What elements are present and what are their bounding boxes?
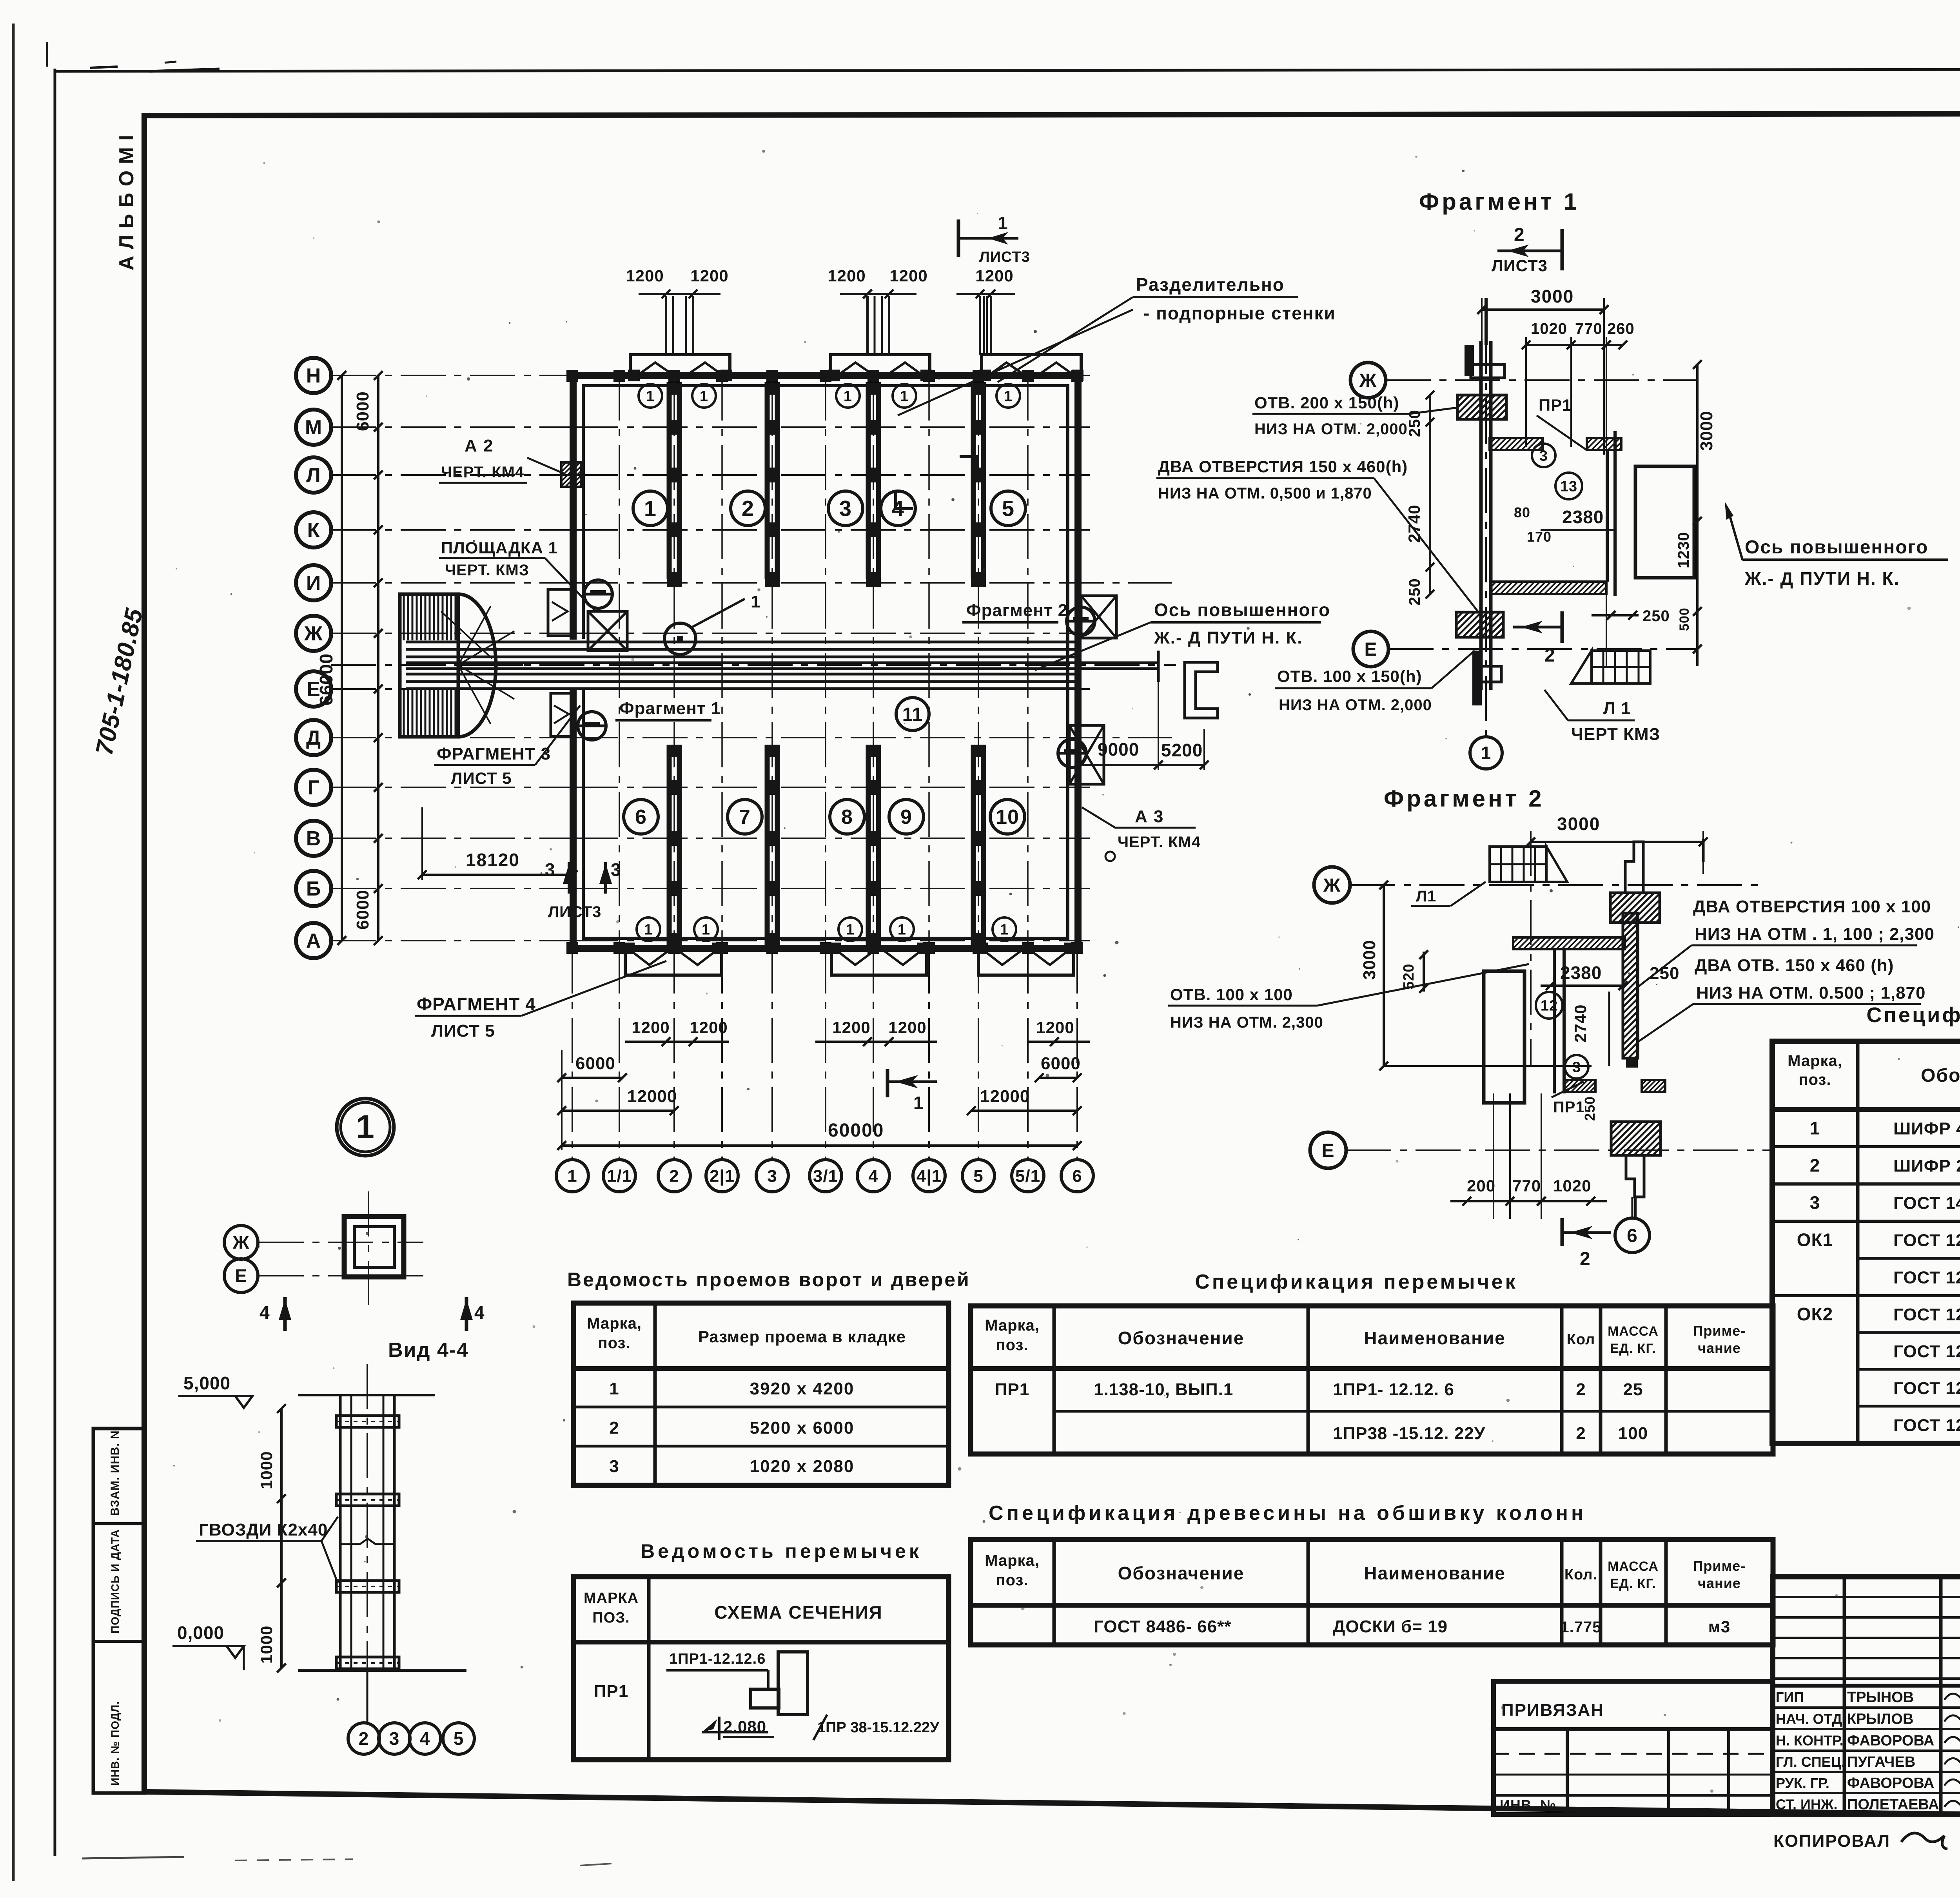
svg-text:12000: 12000 xyxy=(980,1087,1030,1106)
column elevation xyxy=(298,1394,435,1396)
svg-text:1: 1 xyxy=(646,388,655,404)
svg-text:3: 3 xyxy=(1539,448,1548,464)
svg-text:Д: Д xyxy=(306,727,321,749)
section circle xyxy=(578,712,606,740)
svg-text:ГИП: ГИП xyxy=(1776,1689,1804,1705)
svg-text:ЕД. КГ.: ЕД. КГ. xyxy=(1610,1576,1656,1591)
svg-text:Спецификация древесины на обши: Спецификация древесины на обшивку колонн xyxy=(989,1502,1586,1525)
svg-text:1: 1 xyxy=(900,388,909,404)
svg-text:80: 80 xyxy=(1514,504,1530,520)
svg-text:- подпорные стенки: - подпорные стенки xyxy=(1143,303,1336,323)
outer thin frame xyxy=(54,69,56,1856)
svg-text:ИНВ. №: ИНВ. № xyxy=(1500,1797,1556,1813)
svg-text:1: 1 xyxy=(609,1379,619,1398)
axis circle Г xyxy=(296,770,331,805)
axis circle И xyxy=(296,565,331,600)
I-beam end symbol xyxy=(1185,662,1218,718)
svg-text:1: 1 xyxy=(644,496,657,521)
svg-text:1ПР38 -15.12. 22У: 1ПР38 -15.12. 22У xyxy=(1333,1424,1485,1443)
svg-text:0,000: 0,000 xyxy=(177,1623,224,1643)
svg-text:1200: 1200 xyxy=(888,1018,926,1037)
dim 9000 5200 xyxy=(1079,764,1204,766)
axis circle В xyxy=(296,821,331,856)
svg-text:поз.: поз. xyxy=(1798,1071,1831,1088)
svg-text:А Л Ь Б О М I: А Л Ь Б О М I xyxy=(115,134,138,270)
axis circle Л xyxy=(296,457,331,493)
svg-text:ФАВОРОВА: ФАВОРОВА xyxy=(1847,1775,1934,1791)
svg-text:9000: 9000 xyxy=(1098,739,1139,760)
svg-text:3: 3 xyxy=(389,1728,400,1749)
corridor gap in left wall xyxy=(569,640,586,688)
svg-text:Л: Л xyxy=(306,464,321,487)
axis circle 5/1 xyxy=(1012,1160,1044,1192)
svg-text:Л1: Л1 xyxy=(1416,888,1436,905)
svg-text:ОК2: ОК2 xyxy=(1797,1304,1833,1324)
svg-text:1: 1 xyxy=(751,592,760,611)
svg-text:Н: Н xyxy=(306,364,321,387)
column marks on outer walls xyxy=(566,370,578,382)
svg-text:НИЗ НА ОТМ. 0.500 ; 1,870: НИЗ НА ОТМ. 0.500 ; 1,870 xyxy=(1696,983,1926,1003)
svg-text:9: 9 xyxy=(900,806,912,829)
column section square xyxy=(344,1217,404,1277)
svg-text:К: К xyxy=(307,519,320,542)
top right wall piece xyxy=(1581,893,1686,923)
axis circle Б xyxy=(296,871,331,906)
svg-text:ФРАГМЕНТ 3: ФРАГМЕНТ 3 xyxy=(437,744,551,763)
pier blobs at door bay edges xyxy=(628,370,640,381)
svg-text:ЛИСТ 5: ЛИСТ 5 xyxy=(431,1021,495,1041)
svg-text:Кол.: Кол. xyxy=(1564,1566,1597,1583)
svg-text:60000: 60000 xyxy=(828,1120,884,1141)
dim 3000 top xyxy=(1482,308,1604,311)
1200 pairs bottom xyxy=(625,1041,729,1043)
svg-text:ОТВ. 200 х 150(h): ОТВ. 200 х 150(h) xyxy=(1254,393,1399,412)
top door bays xyxy=(630,355,730,375)
svg-text:МАССА: МАССА xyxy=(1608,1559,1659,1574)
svg-text:Фрагмент 2: Фрагмент 2 xyxy=(966,601,1068,620)
svg-text:НАЧ. ОТД.: НАЧ. ОТД. xyxy=(1776,1711,1846,1727)
svg-text:ГОСТ 8486- 66**: ГОСТ 8486- 66** xyxy=(1094,1617,1231,1636)
svg-text:4|1: 4|1 xyxy=(916,1166,942,1186)
svg-text:ФРАГМЕНТ 4: ФРАГМЕНТ 4 xyxy=(417,994,536,1014)
axis circle 2|1 xyxy=(706,1160,738,1192)
svg-text:1ПР 38-15.12.22У: 1ПР 38-15.12.22У xyxy=(817,1719,939,1736)
svg-text:1: 1 xyxy=(702,921,710,938)
svg-text:ЧЕРТ КМЗ: ЧЕРТ КМЗ xyxy=(1571,725,1660,744)
svg-text:МАССА: МАССА xyxy=(1608,1324,1659,1339)
axis Ж circle xyxy=(1314,867,1350,903)
svg-text:ГОСТ 12506-81: ГОСТ 12506-81 xyxy=(1893,1231,1960,1250)
svg-text:МАРКА: МАРКА xyxy=(584,1590,639,1606)
break squiggle xyxy=(340,1539,394,1544)
svg-text:7: 7 xyxy=(739,806,751,829)
svg-text:Кол: Кол xyxy=(1567,1331,1595,1348)
svg-text:1: 1 xyxy=(844,388,852,404)
svg-text:ГОСТ 14624-69: ГОСТ 14624-69 xyxy=(1893,1194,1960,1213)
table ведомость перемычек xyxy=(573,1577,949,1760)
axis circle Е xyxy=(224,1259,258,1293)
section mark 2 ЛИСТ3 xyxy=(1561,229,1564,270)
svg-text:200: 200 xyxy=(1467,1177,1495,1195)
axis circle Н xyxy=(296,358,331,393)
axis circle Е xyxy=(296,671,331,707)
interior partition walls top half xyxy=(667,382,672,579)
svg-text:ФАВОРОВА: ФАВОРОВА xyxy=(1847,1733,1934,1749)
svg-text:5: 5 xyxy=(973,1166,983,1186)
section circle xyxy=(584,580,612,608)
svg-text:2|1: 2|1 xyxy=(710,1166,735,1186)
axis circle М xyxy=(296,410,331,445)
svg-text:2: 2 xyxy=(1576,1380,1586,1399)
svg-text:4: 4 xyxy=(868,1166,878,1186)
svg-text:ВЗАМ. ИНВ. №: ВЗАМ. ИНВ. № xyxy=(109,1426,122,1516)
svg-text:1200: 1200 xyxy=(690,267,728,285)
svg-text:250: 250 xyxy=(1406,578,1423,606)
svg-text:Ж: Ж xyxy=(1323,875,1341,896)
collars xyxy=(336,1416,399,1427)
axis circle К xyxy=(296,512,331,548)
compartment circle 11 xyxy=(896,698,929,731)
svg-text:6: 6 xyxy=(1072,1166,1082,1186)
svg-text:ОК1: ОК1 xyxy=(1797,1230,1833,1250)
dock radial lines xyxy=(458,606,491,665)
svg-text:Обозначение: Обозначение xyxy=(1921,1065,1960,1086)
X-box left inside plan xyxy=(588,611,627,651)
table ведомость проемов xyxy=(573,1303,949,1485)
axis circle 4 xyxy=(857,1160,889,1192)
circled 13 xyxy=(1555,473,1582,499)
svg-text:500: 500 xyxy=(1677,607,1692,631)
svg-text:4: 4 xyxy=(260,1302,270,1323)
axis circle 6 xyxy=(1061,1160,1093,1192)
top dim 1200 pairs xyxy=(639,293,720,295)
svg-text:НИЗ НА ОТМ. 2,000: НИЗ НА ОТМ. 2,000 xyxy=(1279,696,1432,714)
svg-text:Марка,: Марка, xyxy=(985,1317,1040,1334)
bottom door bays xyxy=(625,948,722,975)
svg-text:Е: Е xyxy=(1364,639,1377,660)
svg-text:2: 2 xyxy=(1810,1155,1820,1176)
svg-text:поз.: поз. xyxy=(996,1336,1028,1354)
svg-text:Марка,: Марка, xyxy=(985,1552,1040,1569)
svg-text:2: 2 xyxy=(1514,225,1525,245)
bottom wall xyxy=(1478,582,1617,594)
svg-text:СХЕМА СЕЧЕНИЯ: СХЕМА СЕЧЕНИЯ xyxy=(714,1602,882,1623)
top-left corner dashes xyxy=(90,67,118,68)
svg-text:Ж: Ж xyxy=(232,1232,250,1253)
node circle with leader 1 xyxy=(664,623,696,654)
svg-text:770: 770 xyxy=(1512,1177,1541,1195)
svg-text:А 3: А 3 xyxy=(1135,807,1164,826)
svg-text:13: 13 xyxy=(1560,478,1577,495)
svg-text:1020 х 2080: 1020 х 2080 xyxy=(750,1457,855,1476)
svg-text:2: 2 xyxy=(1580,1249,1591,1269)
svg-text:ТРЫНОВ: ТРЫНОВ xyxy=(1847,1689,1914,1706)
svg-text:6: 6 xyxy=(1627,1226,1638,1246)
dims 3000 520 vertical xyxy=(1383,885,1385,1066)
svg-text:Ведомость перемычек: Ведомость перемычек xyxy=(641,1540,922,1562)
svg-text:РУК. ГР.: РУК. ГР. xyxy=(1776,1775,1829,1791)
door bay riser lines above (1200 columns) xyxy=(665,296,667,355)
svg-text:1.138-10, ВЫП.1: 1.138-10, ВЫП.1 xyxy=(1094,1380,1233,1399)
horizontal axis dash-dot lines across building xyxy=(573,375,1090,376)
svg-text:ОТВ. 100 х 150(h): ОТВ. 100 х 150(h) xyxy=(1277,667,1422,685)
svg-text:2.080: 2.080 xyxy=(723,1717,766,1736)
svg-text:Ж: Ж xyxy=(304,622,323,645)
vertical axis lines through building xyxy=(572,375,573,948)
axis circle Ж xyxy=(224,1226,258,1259)
section circle xyxy=(1067,607,1095,635)
svg-text:1ПР1- 12.12. 6: 1ПР1- 12.12. 6 xyxy=(1333,1380,1454,1399)
vertical dim 1000s xyxy=(280,1409,283,1668)
interior partition walls bottom half xyxy=(667,745,672,945)
svg-text:НИЗ НА ОТМ. 2,300: НИЗ НА ОТМ. 2,300 xyxy=(1170,1014,1323,1031)
svg-text:ЛИСТ3: ЛИСТ3 xyxy=(979,249,1030,265)
svg-text:1: 1 xyxy=(1000,921,1009,938)
bottom circles 2 3 4 5 xyxy=(348,1723,379,1754)
svg-text:И: И xyxy=(306,572,321,595)
circled 3 xyxy=(1532,444,1555,467)
svg-text:ГОСТ 12506-81: ГОСТ 12506-81 xyxy=(1893,1305,1960,1324)
axis circle А xyxy=(296,923,331,958)
axis circle 1/1 xyxy=(603,1160,635,1192)
svg-text:5: 5 xyxy=(454,1728,464,1749)
svg-text:3920 х 4200: 3920 х 4200 xyxy=(750,1379,855,1398)
svg-text:1200: 1200 xyxy=(975,267,1013,285)
ground line xyxy=(298,1669,466,1672)
svg-text:8: 8 xyxy=(841,806,853,829)
axis circle 2 xyxy=(658,1160,690,1192)
svg-text:3: 3 xyxy=(839,496,852,521)
scan speckles xyxy=(173,150,1960,1793)
svg-text:ДВА ОТВЕРСТИЯ 100 х 100: ДВА ОТВЕРСТИЯ 100 х 100 xyxy=(1693,897,1931,916)
svg-text:4: 4 xyxy=(420,1728,430,1749)
svg-text:2: 2 xyxy=(609,1418,619,1438)
stair symbol xyxy=(1490,847,1567,882)
svg-text:Ось повышенного: Ось повышенного xyxy=(1154,600,1330,620)
svg-text:ГОСТ 12506-81: ГОСТ 12506-81 xyxy=(1893,1268,1960,1287)
svg-text:1200: 1200 xyxy=(828,267,866,285)
svg-text:ЛИСТ3: ЛИСТ3 xyxy=(548,903,601,921)
axis Е circle xyxy=(1353,631,1388,667)
svg-text:1230: 1230 xyxy=(1675,532,1692,568)
section marks 3 xyxy=(568,862,571,894)
title block main xyxy=(1773,1577,1960,1815)
axis circle 5 xyxy=(962,1160,995,1192)
section mark 2 bottom xyxy=(1561,1218,1564,1246)
svg-text:12000: 12000 xyxy=(627,1087,677,1106)
svg-text:3: 3 xyxy=(545,859,555,880)
svg-text:5: 5 xyxy=(1002,496,1014,521)
svg-text:СТ. ИНЖ.: СТ. ИНЖ. xyxy=(1776,1797,1837,1813)
svg-text:Г: Г xyxy=(308,776,319,799)
svg-text:ДОСКИ б= 19: ДОСКИ б= 19 xyxy=(1333,1617,1448,1636)
svg-text:1ПР1-12.12.6: 1ПР1-12.12.6 xyxy=(669,1651,766,1667)
top opening wall xyxy=(1478,438,1550,450)
svg-text:1: 1 xyxy=(846,921,855,938)
svg-text:Л 1: Л 1 xyxy=(1603,699,1631,718)
svg-text:3: 3 xyxy=(609,1457,619,1476)
svg-text:Наименование: Наименование xyxy=(1364,1563,1505,1583)
fragment 1 walls xyxy=(1479,341,1483,690)
X-box right of corridor xyxy=(1081,596,1116,638)
svg-text:1: 1 xyxy=(898,921,906,938)
table grid xyxy=(1772,1041,1960,1443)
svg-text:А: А xyxy=(306,930,321,952)
axis circle 1 xyxy=(556,1160,588,1192)
svg-text:2: 2 xyxy=(1544,645,1555,666)
svg-text:Ведомость проемов ворот и двер: Ведомость проемов ворот и дверей xyxy=(567,1269,971,1291)
fragment 1 small walls above xyxy=(1465,345,1474,376)
svg-text:1200: 1200 xyxy=(889,267,927,285)
svg-text:ГВОЗДИ К2х40: ГВОЗДИ К2х40 xyxy=(199,1520,328,1539)
left vertical dims xyxy=(377,375,379,941)
svg-text:3000: 3000 xyxy=(1557,814,1600,834)
unloading dock rectangle with hatch xyxy=(400,594,458,737)
stair symbol Л1 xyxy=(1571,651,1650,683)
svg-text:5200: 5200 xyxy=(1161,740,1203,760)
svg-text:6000: 6000 xyxy=(353,890,372,930)
svg-text:25: 25 xyxy=(1623,1380,1643,1399)
svg-text:М: М xyxy=(305,416,322,439)
привязан block xyxy=(1494,1681,1773,1815)
svg-text:Приме-: Приме- xyxy=(1693,1558,1746,1574)
svg-text:ЛИСТ3: ЛИСТ3 xyxy=(1492,256,1548,275)
svg-text:Обозначение: Обозначение xyxy=(1118,1328,1245,1348)
svg-text:Е: Е xyxy=(1321,1140,1334,1161)
svg-text:5/1: 5/1 xyxy=(1015,1166,1040,1186)
svg-text:чание: чание xyxy=(1698,1575,1741,1591)
dock platform boxes outside left wall xyxy=(548,589,572,636)
svg-text:Спецификация элементов запол: Спецификация элементов заполнения проемо… xyxy=(1866,1003,1960,1027)
svg-text:ШИФР 259-75: ШИФР 259-75 xyxy=(1893,1157,1960,1176)
svg-text:1/1: 1/1 xyxy=(607,1166,632,1186)
axis circle Ж xyxy=(296,616,331,651)
svg-text:Приме-: Приме- xyxy=(1693,1323,1746,1339)
svg-text:ЧЕРТ. КМ4: ЧЕРТ. КМ4 xyxy=(1118,834,1201,851)
svg-text:ЧЕРТ. КМ4: ЧЕРТ. КМ4 xyxy=(441,464,524,481)
svg-text:ДВА ОТВ. 150 х 460 (h): ДВА ОТВ. 150 х 460 (h) xyxy=(1695,956,1894,975)
svg-text:Фрагмент 1: Фрагмент 1 xyxy=(619,699,721,718)
table спецификация древесины xyxy=(971,1539,1773,1645)
svg-text:170: 170 xyxy=(1527,529,1552,545)
svg-text:770: 770 xyxy=(1575,320,1602,337)
axis Е circle xyxy=(1310,1132,1346,1168)
svg-text:ПЛОЩАДКА 1: ПЛОЩАДКА 1 xyxy=(441,538,558,557)
svg-text:11: 11 xyxy=(902,704,923,725)
svg-text:Спецификация перемычек: Спецификация перемычек xyxy=(1195,1271,1517,1293)
svg-text:3: 3 xyxy=(1572,1059,1581,1075)
A2 hatched dock at left wall xyxy=(537,462,604,487)
svg-text:1.775: 1.775 xyxy=(1560,1619,1601,1636)
svg-text:250: 250 xyxy=(1642,607,1670,625)
svg-text:1: 1 xyxy=(913,1093,924,1113)
right door wall xyxy=(1606,450,1609,582)
right wall vertical lines xyxy=(1636,913,1639,1058)
svg-text:3000: 3000 xyxy=(1697,411,1716,451)
svg-text:3000: 3000 xyxy=(1531,286,1574,306)
table спецификация перемычек xyxy=(971,1306,1773,1454)
svg-text:3: 3 xyxy=(767,1166,777,1186)
svg-text:Е: Е xyxy=(235,1265,247,1286)
axis circle Д xyxy=(296,720,331,755)
svg-text:Обозначение: Обозначение xyxy=(1118,1563,1245,1583)
svg-text:Фрагмент 2: Фрагмент 2 xyxy=(1384,785,1544,812)
svg-text:1: 1 xyxy=(700,388,708,404)
svg-text:2: 2 xyxy=(742,496,754,521)
dims 200 770 1020 xyxy=(1450,1200,1607,1202)
svg-text:м3: м3 xyxy=(1708,1617,1730,1636)
section mark 2 bottom xyxy=(1561,611,1564,643)
svg-text:10: 10 xyxy=(996,806,1019,829)
axis 1 vertical + circle xyxy=(1485,329,1487,737)
svg-text:ДВА ОТВЕРСТИЯ 150 х 460(h): ДВА ОТВЕРСТИЯ 150 х 460(h) xyxy=(1158,457,1408,476)
small door circles bottom row xyxy=(637,917,660,941)
svg-text:1: 1 xyxy=(1481,743,1492,763)
svg-text:ГОСТ 12506-81: ГОСТ 12506-81 xyxy=(1893,1342,1960,1361)
svg-text:1000: 1000 xyxy=(257,1451,276,1489)
section mark 1 ЛИСТ3 top xyxy=(957,219,960,257)
svg-text:ПУГАЧЕВ: ПУГАЧЕВ xyxy=(1847,1754,1915,1770)
dim 250 bottom xyxy=(1592,614,1639,616)
right dims 3000 1230 500 xyxy=(1696,364,1699,666)
svg-text:5,000: 5,000 xyxy=(183,1373,230,1393)
svg-text:1200: 1200 xyxy=(832,1018,870,1037)
circled 3 xyxy=(1565,1055,1588,1079)
svg-text:НИЗ НА ОТМ. 0,500 и 1,870: НИЗ НА ОТМ. 0,500 и 1,870 xyxy=(1158,485,1372,502)
bottom scan smudges xyxy=(82,1857,184,1858)
axis Ж circle xyxy=(1350,363,1386,398)
svg-text:1: 1 xyxy=(998,213,1008,233)
svg-text:Ось повышенного: Ось повышенного xyxy=(1745,537,1928,558)
svg-text:ПОЗ.: ПОЗ. xyxy=(592,1610,630,1626)
svg-text:4: 4 xyxy=(474,1302,485,1323)
svg-text:1200: 1200 xyxy=(632,1018,670,1037)
circled 6 xyxy=(1615,1218,1650,1253)
svg-text:2740: 2740 xyxy=(1571,1004,1590,1042)
svg-text:Марка,: Марка, xyxy=(587,1315,642,1332)
svg-text:поз.: поз. xyxy=(598,1334,630,1352)
svg-text:18120: 18120 xyxy=(466,850,520,870)
svg-text:ШИФР 41-74: ШИФР 41-74 xyxy=(1893,1119,1960,1139)
svg-text:ГЛ. СПЕЦ.: ГЛ. СПЕЦ. xyxy=(1776,1754,1845,1770)
svg-text:2380: 2380 xyxy=(1562,507,1604,527)
svg-text:5200 х 6000: 5200 х 6000 xyxy=(750,1418,855,1438)
svg-text:3/1: 3/1 xyxy=(813,1166,838,1186)
svg-text:ПР1: ПР1 xyxy=(594,1682,628,1701)
svg-text:Ж.- Д ПУТИ Н. К.: Ж.- Д ПУТИ Н. К. xyxy=(1744,568,1900,589)
svg-text:1000: 1000 xyxy=(257,1626,276,1664)
rail end tick xyxy=(1157,651,1160,682)
svg-text:1200: 1200 xyxy=(626,267,664,285)
svg-text:ИНВ. № ПОДЛ.: ИНВ. № ПОДЛ. xyxy=(109,1701,121,1786)
svg-text:ЕД. КГ.: ЕД. КГ. xyxy=(1610,1341,1656,1356)
svg-text:ПОЛЕТАЕВА: ПОЛЕТАЕВА xyxy=(1847,1797,1939,1813)
compartment number circles top xyxy=(633,491,668,526)
dim 18120 xyxy=(422,874,573,876)
rail corridor lines xyxy=(406,641,1078,644)
svg-text:100: 100 xyxy=(1618,1424,1648,1443)
building outer walls xyxy=(573,375,1078,948)
svg-text:Размер проема в кладке: Размер проема в кладке xyxy=(698,1327,906,1346)
svg-text:Ж.- Д ПУТИ Н. К.: Ж.- Д ПУТИ Н. К. xyxy=(1154,628,1303,647)
svg-text:2: 2 xyxy=(359,1728,369,1749)
svg-text:1: 1 xyxy=(1810,1118,1820,1139)
svg-text:КОПИРОВАЛ: КОПИРОВАЛ xyxy=(1773,1831,1890,1851)
svg-text:ПР1: ПР1 xyxy=(995,1380,1029,1399)
svg-text:6000: 6000 xyxy=(575,1054,615,1073)
axis circle 4|1 xyxy=(913,1160,945,1192)
svg-text:поз.: поз. xyxy=(996,1572,1028,1589)
